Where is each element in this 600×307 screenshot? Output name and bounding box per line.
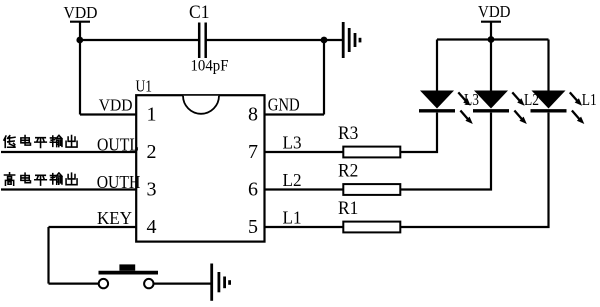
- wire: to button left terminal: [49, 283, 99, 285]
- wire: junction down to pin 8 row: [323, 40, 325, 115]
- label 低电平输出: [4, 136, 77, 148]
- wire: C1 right plate to junction: [206, 39, 324, 41]
- svg-text:104pF: 104pF: [191, 58, 229, 75]
- svg-text:L2: L2: [283, 170, 302, 190]
- svg-text:5: 5: [248, 216, 258, 238]
- ground (top right, rotated): [343, 22, 360, 58]
- wire: rail down to LED L3: [436, 40, 438, 92]
- svg-text:1: 1: [147, 104, 157, 126]
- wire: pin 4 KEY horizontal: [49, 226, 137, 228]
- svg-text:R2: R2: [338, 161, 358, 182]
- LED L1: [531, 91, 585, 125]
- LED L3: [419, 91, 473, 125]
- svg-text:L1: L1: [283, 208, 302, 228]
- wire: R1 to L1 branch: [400, 113, 548, 227]
- node: junction VDD rail: [488, 36, 495, 43]
- label 高电平输出: [4, 173, 77, 185]
- LED L2: [473, 91, 527, 125]
- wire: pin 1 horizontal into IC: [80, 113, 136, 115]
- resistor R1: [338, 198, 400, 232]
- svg-text:6: 6: [248, 179, 258, 201]
- svg-text:U1: U1: [136, 77, 153, 96]
- svg-text:L1: L1: [582, 90, 597, 109]
- svg-text:7: 7: [248, 141, 258, 163]
- wire: rail down to LED L2: [490, 40, 492, 92]
- svg-text:GND: GND: [268, 95, 300, 115]
- svg-text:2: 2: [147, 141, 157, 163]
- wire: KEY vertical down: [47, 227, 49, 284]
- svg-text:L3: L3: [283, 133, 302, 153]
- wire: VDD rail: [437, 38, 549, 40]
- svg-text:4: 4: [147, 216, 157, 238]
- svg-text:R1: R1: [338, 198, 358, 219]
- wire: pin 6 to R2: [265, 188, 344, 190]
- wire: button right terminal to ground: [154, 283, 211, 285]
- power VDD (top right): [478, 2, 511, 40]
- wire: pin 3 OUTH to left edge: [1, 188, 136, 190]
- wire: R3 to L3 branch: [400, 113, 437, 152]
- node: junction VDD / C1: [76, 37, 83, 44]
- wire: R2 to L2 branch: [400, 113, 491, 190]
- svg-text:3: 3: [147, 179, 157, 201]
- svg-text:VDD: VDD: [64, 3, 98, 22]
- pushbutton switch: [99, 264, 159, 288]
- wire: junction to C1 left plate: [80, 39, 199, 41]
- wire: pin 7 to R3: [265, 151, 344, 153]
- node: junction C1 / GND wire / ground: [321, 37, 328, 44]
- wire: VDD vertical to pin 1 row: [79, 40, 81, 115]
- wire: pin 8 horizontal to IC: [265, 113, 325, 115]
- IC U1 body: [136, 95, 264, 241]
- power VDD (top left): [64, 3, 98, 40]
- svg-text:8: 8: [248, 104, 258, 126]
- ground (bottom, rotated): [212, 264, 230, 301]
- svg-text:R3: R3: [338, 123, 358, 144]
- svg-text:KEY: KEY: [97, 208, 132, 228]
- capacitor C1: [189, 2, 210, 58]
- wire: pin 2 OUTL to left edge: [1, 151, 136, 153]
- svg-text:VDD: VDD: [478, 2, 511, 21]
- wire: pin 5 to R1: [265, 226, 344, 228]
- wire: rail down to LED L1: [547, 40, 549, 92]
- wire: junction to ground: [324, 39, 342, 41]
- resistor R2: [338, 161, 400, 195]
- svg-text:VDD: VDD: [99, 96, 133, 115]
- resistor R3: [338, 123, 400, 157]
- svg-text:C1: C1: [189, 2, 210, 23]
